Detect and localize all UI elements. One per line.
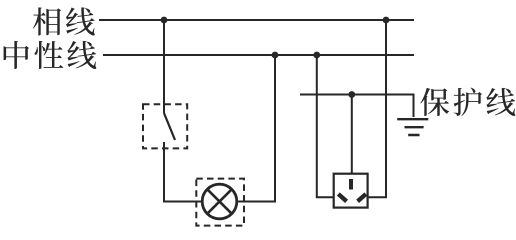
- net label 中性线 (neutral line): [4, 41, 29, 69]
- ground (earth) symbol bars: [397, 119, 428, 135]
- node: neutral/lamp junction: [272, 52, 279, 59]
- wire: neutral line (中性线) horizontal bus: [103, 54, 414, 56]
- wire: switch bottom to lamp, with corner: [164, 142, 202, 202]
- wire: phase drop to socket right terminal: [368, 20, 386, 197]
- socket X1 left slot: [338, 194, 346, 201]
- wire: phase line (相线) horizontal bus: [99, 19, 414, 21]
- node: phase/socket junction: [383, 17, 390, 24]
- node: protection/socket-earth junction: [348, 91, 355, 98]
- wire: protection line (保护线) horizontal bus: [300, 95, 414, 118]
- lamp EL dashed enclosure: [196, 179, 244, 226]
- net label 保护线 (protective earth line): [420, 88, 449, 116]
- socket X1 right slot: [358, 194, 366, 201]
- node: neutral/socket junction: [313, 52, 320, 59]
- net label 相线 (phase line): [33, 7, 61, 35]
- wire: lamp right side up to neutral: [237, 55, 275, 202]
- socket X1 earth slot (top vertical): [349, 179, 353, 190]
- socket X1 box: [334, 174, 368, 208]
- switch S1 blade (open contact): [164, 113, 175, 140]
- wire: protection drop to socket earth (top) terminal: [351, 95, 353, 174]
- switch S1 dashed enclosure: [143, 104, 187, 148]
- wire: neutral drop to socket left terminal: [317, 55, 334, 197]
- lamp EL cross (X): [207, 189, 231, 213]
- lamp EL circle: [202, 184, 237, 219]
- node: phase/switch junction: [161, 17, 168, 24]
- wire: phase drop to switch S1: [163, 20, 165, 113]
